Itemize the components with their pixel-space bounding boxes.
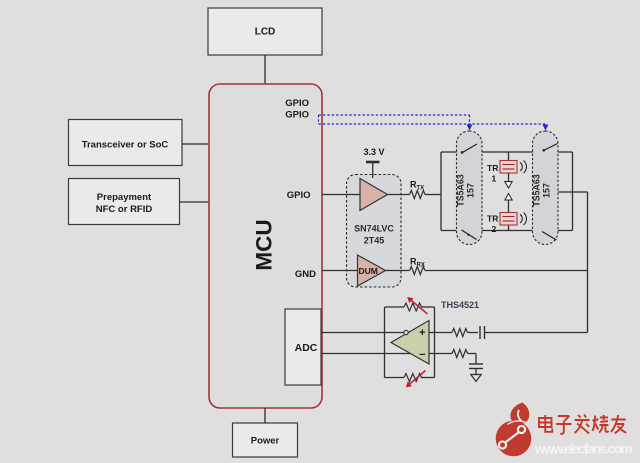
svg-text:−: − xyxy=(419,349,425,361)
buffer triangle DUM xyxy=(358,255,386,286)
svg-text:GPIO: GPIO xyxy=(285,98,309,109)
watermark text chinese xyxy=(539,415,626,434)
svg-text:TR: TR xyxy=(487,214,498,224)
svg-text:MCU: MCU xyxy=(252,219,277,270)
op-amp U5 THS4521 xyxy=(391,321,429,365)
wire RTX to switch network xyxy=(425,194,441,196)
switch network top wire xyxy=(441,151,573,153)
svg-text:Transceiver or SoC: Transceiver or SoC xyxy=(82,140,169,151)
glyph dian xyxy=(539,415,552,432)
ground xyxy=(471,375,481,382)
svg-text:+: + xyxy=(419,327,425,339)
stub switch2 to output vertical xyxy=(558,191,588,193)
series resistor R4 on - output xyxy=(452,350,468,358)
power rail 3.3V xyxy=(363,147,384,178)
buffer triangle TX xyxy=(360,179,388,211)
blue control wire GPIO to switch2 xyxy=(319,115,549,131)
switch network bottom wire xyxy=(441,230,573,232)
wire C1 to output vertical xyxy=(485,332,588,334)
feedback loop left vertical xyxy=(384,307,386,378)
switch blade box2 bottom xyxy=(536,228,557,240)
wire LCD to MCU xyxy=(264,55,266,84)
svg-text:2T45: 2T45 xyxy=(364,236,385,246)
switch network right vertical xyxy=(572,152,574,231)
center vertical wire TR column xyxy=(508,152,510,182)
ADC block xyxy=(285,309,321,385)
svg-text:www.elecfans.com: www.elecfans.com xyxy=(534,442,633,457)
svg-text:DUM: DUM xyxy=(359,266,378,276)
wire MCU GND to DUM buffer xyxy=(322,270,358,272)
wire Transceiver to MCU xyxy=(182,143,209,145)
wire DUM to RRX xyxy=(386,270,410,272)
switch blade box2 top xyxy=(536,144,558,156)
switch network left vertical xyxy=(440,152,442,231)
output vertical wire xyxy=(587,192,589,333)
svg-text:SN74LVC: SN74LVC xyxy=(354,224,394,234)
arrow down between TRs xyxy=(505,182,512,189)
svg-text:THS4521: THS4521 xyxy=(441,300,479,310)
transformer TR2 xyxy=(487,213,526,235)
resistor RTX xyxy=(410,180,426,199)
resistor RRX xyxy=(410,257,426,275)
glyph fa xyxy=(575,415,590,434)
svg-text:GPIO: GPIO xyxy=(285,110,309,121)
svg-text:GND: GND xyxy=(295,269,316,280)
wire RRX to right vertical xyxy=(425,270,588,272)
switch blade box1 bottom xyxy=(460,228,480,240)
variable arrow R1 xyxy=(407,297,427,314)
MCU block xyxy=(209,84,322,408)
feedback loop right vertical xyxy=(434,307,436,378)
wire R3 to C1 xyxy=(468,332,479,334)
feedback resistor R1 xyxy=(404,303,421,311)
svg-text:GPIO: GPIO xyxy=(287,190,311,201)
svg-text:LCD: LCD xyxy=(255,27,276,38)
glyph you xyxy=(611,415,626,433)
wire C2 to ground xyxy=(475,369,477,375)
wire ADC bottom to op-amp xyxy=(321,353,452,355)
svg-text:NFC or RFID: NFC or RFID xyxy=(96,204,153,215)
svg-text:157: 157 xyxy=(466,183,476,198)
wire MCU GPIO3 to buffer xyxy=(322,194,360,196)
transformer TR1 xyxy=(487,161,526,184)
svg-text:TS5A63: TS5A63 xyxy=(532,174,542,206)
svg-text:ADC: ADC xyxy=(295,342,318,354)
block LCD xyxy=(208,8,322,55)
wire R4 to shunt cap xyxy=(468,353,477,355)
switch U3 TS5A63157 box1 xyxy=(456,131,483,245)
svg-text:Power: Power xyxy=(251,436,280,447)
feedback resistor R2 xyxy=(404,374,421,382)
svg-text:1: 1 xyxy=(492,174,497,184)
svg-text:3.3 V: 3.3 V xyxy=(363,147,384,157)
arrow up between TRs xyxy=(505,194,512,201)
capacitor C1 series xyxy=(480,326,485,339)
wire MCU to Power xyxy=(264,408,266,423)
svg-text:TS5A63: TS5A63 xyxy=(456,174,466,206)
buffer box U2 SN74LVC2T45 xyxy=(347,175,402,288)
block Power xyxy=(233,423,298,457)
variable arrow R2 xyxy=(406,371,426,388)
svg-text:TR: TR xyxy=(487,163,498,173)
svg-text:Prepayment: Prepayment xyxy=(97,192,152,203)
block Prepayment NFC or RFID xyxy=(69,179,180,225)
glyph shao xyxy=(592,415,608,433)
blue control wire GPIO to switch1 xyxy=(319,115,473,131)
svg-text:157: 157 xyxy=(542,183,552,198)
svg-text:2: 2 xyxy=(492,224,497,234)
switch U4 TS5A63157 box2 xyxy=(532,131,559,245)
capacitor C2 shunt xyxy=(469,364,483,369)
block Transceiver or SoC xyxy=(69,120,183,166)
series resistor R3 on + output xyxy=(452,329,468,337)
wire ADC top to op-amp xyxy=(321,332,452,334)
wire buffer to RTX xyxy=(388,194,410,196)
wire Prepayment to MCU xyxy=(180,201,210,203)
feedback top wire xyxy=(385,306,405,308)
feedback bottom wire xyxy=(385,377,405,379)
watermark logo circle xyxy=(496,403,532,457)
glyph zi xyxy=(556,416,571,434)
switch blade box1 top xyxy=(460,144,480,155)
